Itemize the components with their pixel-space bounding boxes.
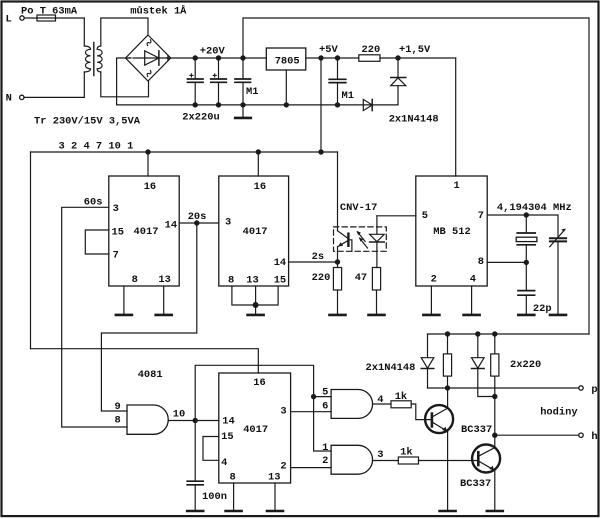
svg-text:5: 5 xyxy=(422,210,428,222)
svg-text:60s: 60s xyxy=(84,197,103,209)
wire 7805 out xyxy=(306,57,359,59)
svg-text:8: 8 xyxy=(478,256,484,268)
svg-text:4: 4 xyxy=(221,457,227,469)
terminal h xyxy=(579,433,583,437)
capacitor 100n xyxy=(194,421,196,481)
transformer Tr secondary wires xyxy=(101,18,148,46)
bridge AC tilde bottom xyxy=(146,71,152,77)
svg-text:9: 9 xyxy=(115,401,121,413)
svg-text:7: 7 xyxy=(478,210,484,222)
capacitor C2 220u xyxy=(218,58,220,79)
svg-text:2x220: 2x220 xyxy=(510,359,541,371)
transformer Tr primary wire xyxy=(83,18,85,46)
svg-text:14: 14 xyxy=(165,220,177,232)
svg-text:100n: 100n xyxy=(202,491,227,503)
svg-text:15: 15 xyxy=(274,275,286,287)
svg-text:13: 13 xyxy=(246,275,258,287)
ground 220 opto xyxy=(330,314,346,317)
svg-text:6: 6 xyxy=(322,401,328,413)
resistor 1k second xyxy=(398,457,418,464)
ground 22p xyxy=(518,314,534,317)
capacitor C1 220u xyxy=(194,58,196,79)
capacitor 22p xyxy=(525,262,527,290)
wire IC4 pin15 pin4 loop xyxy=(203,437,219,461)
IC U3 4017 first box xyxy=(109,176,179,286)
AND gate G3 4081 xyxy=(331,445,372,474)
svg-text:16: 16 xyxy=(144,181,156,193)
ground MB512 pin4 xyxy=(471,286,473,314)
svg-text:8: 8 xyxy=(228,275,234,287)
diode D1 1N4148 vertical xyxy=(397,58,399,77)
IC U6 4017 third box xyxy=(219,373,291,483)
terminal N xyxy=(20,95,24,99)
svg-text:L: L xyxy=(6,14,12,26)
ground Q2 xyxy=(487,510,503,513)
svg-text:3: 3 xyxy=(280,406,286,418)
svg-text:3: 3 xyxy=(225,217,231,229)
transformer Tr core xyxy=(93,43,95,76)
svg-text:22p: 22p xyxy=(533,303,552,315)
svg-text:2x220u: 2x220u xyxy=(182,112,219,124)
wire minus rail xyxy=(117,58,398,105)
optocoupler phototransistor xyxy=(337,152,339,231)
crystal X1 xyxy=(525,215,527,233)
wire G1 output node link xyxy=(168,420,219,422)
svg-text:2x1N4148: 2x1N4148 xyxy=(389,113,439,125)
diode D4 1N4148 xyxy=(477,334,479,357)
svg-text:220: 220 xyxy=(312,272,331,284)
wire rail 334 xyxy=(428,333,590,335)
svg-text:13: 13 xyxy=(268,472,280,484)
svg-text:BC337: BC337 xyxy=(460,478,491,490)
svg-text:1: 1 xyxy=(322,442,328,454)
terminal L xyxy=(20,16,24,20)
wire IC1 pin16 xyxy=(147,152,149,176)
wire to Q1 base xyxy=(411,404,431,420)
resistor R220 second xyxy=(494,334,496,354)
wire G2 output xyxy=(373,403,391,405)
wire IC1 pin3 60s xyxy=(62,207,127,427)
svg-text:3: 3 xyxy=(113,203,119,215)
svg-text:20s: 20s xyxy=(188,211,207,223)
svg-text:2s: 2s xyxy=(312,251,324,263)
wire G3 output xyxy=(373,460,399,462)
svg-text:4,194304 MHz: 4,194304 MHz xyxy=(497,202,572,214)
svg-text:1k: 1k xyxy=(395,391,407,403)
capacitor M1 first xyxy=(242,58,244,79)
AND gate G2 4081 xyxy=(331,390,372,419)
wire IC4 pin3 to G2 input6 xyxy=(291,411,332,413)
ground Q1 xyxy=(440,510,456,513)
wire G2 input5 xyxy=(314,396,332,398)
svg-text:8: 8 xyxy=(132,274,138,286)
ground IC4 pin8 xyxy=(233,483,235,510)
wire MB512 pin8 xyxy=(487,261,526,263)
wire IC2 pins 8 13 15 join xyxy=(232,286,278,305)
svg-text:13: 13 xyxy=(158,274,170,286)
transistor Q1 BC337 xyxy=(425,405,453,433)
svg-text:4017: 4017 xyxy=(134,226,159,238)
svg-text:+1,5V: +1,5V xyxy=(399,44,431,56)
bridge AC tilde top xyxy=(146,40,152,46)
svg-text:220: 220 xyxy=(362,44,381,56)
optocoupler LED xyxy=(376,216,378,235)
IC U5 MB512 box xyxy=(416,176,487,286)
svg-text:BC337: BC337 xyxy=(461,424,492,436)
ground MB512 pin2 xyxy=(430,286,432,314)
svg-text:4: 4 xyxy=(470,273,476,285)
IC U4 4017 second box xyxy=(219,176,289,286)
svg-text:Po T 63mA: Po T 63mA xyxy=(21,5,78,17)
ground 100n xyxy=(187,510,203,513)
svg-text:2: 2 xyxy=(322,455,328,467)
ground under M1 xyxy=(242,105,244,117)
svg-text:3: 3 xyxy=(377,449,383,461)
ground IC4 pin13 xyxy=(274,483,276,510)
resistor 1k first xyxy=(391,401,411,408)
wire node up over to gates 2 3 xyxy=(195,365,331,451)
wire IC2 pin14 2s xyxy=(289,261,338,263)
trimmer capacitor xyxy=(550,237,566,239)
optocoupler light arrows xyxy=(358,232,366,242)
svg-text:hodiny: hodiny xyxy=(540,407,578,419)
wire p line xyxy=(428,387,579,389)
wire +5V down feed xyxy=(320,58,322,152)
svg-text:Tr 230V/15V 3,5VA: Tr 230V/15V 3,5VA xyxy=(34,116,141,128)
wire 20s drop xyxy=(101,223,196,411)
diode D2 1N4148 horizontal xyxy=(363,99,372,110)
wire +5V rail mid xyxy=(31,151,338,153)
svg-text:7805: 7805 xyxy=(275,55,300,67)
bridge internal wire xyxy=(133,57,165,59)
svg-text:N: N xyxy=(6,92,12,104)
transformer Tr primary winding xyxy=(84,46,90,72)
bridge minus mark xyxy=(127,57,131,59)
wire IC4 pin2 to G3 input2 xyxy=(291,467,332,469)
wire IC1 pin15 pin7 loop xyxy=(85,230,109,254)
svg-text:p: p xyxy=(591,384,597,396)
capacitor M1 second xyxy=(337,58,339,79)
bridge internal diode xyxy=(145,51,159,65)
ground IC1 pin8 xyxy=(123,286,125,314)
wire to Q2 base xyxy=(419,460,478,462)
optocoupler CNV-17 dashed box xyxy=(334,227,387,251)
svg-text:4017: 4017 xyxy=(243,226,268,238)
svg-text:můstek 1Å: můstek 1Å xyxy=(130,4,187,17)
svg-text:+20V: +20V xyxy=(200,46,226,58)
svg-text:14: 14 xyxy=(274,257,286,269)
fuse Po xyxy=(37,15,56,21)
svg-text:h: h xyxy=(591,431,597,443)
ground IC2 xyxy=(248,314,264,317)
ground IC1 pin13 xyxy=(163,286,165,314)
svg-text:8: 8 xyxy=(115,414,121,426)
terminal p xyxy=(579,386,583,390)
svg-text:4081: 4081 xyxy=(138,369,163,381)
svg-text:4: 4 xyxy=(377,394,383,406)
svg-text:2x1N4148: 2x1N4148 xyxy=(366,362,416,374)
svg-text:CNV-17: CNV-17 xyxy=(340,202,377,214)
svg-text:+5V: +5V xyxy=(319,44,338,56)
AND gate G1 4081 xyxy=(127,405,168,434)
svg-text:14: 14 xyxy=(222,416,234,428)
svg-text:1: 1 xyxy=(454,180,460,192)
wire MB512 pin1 feed xyxy=(455,58,457,176)
resistor R220 first xyxy=(447,334,449,354)
svg-text:MB 512: MB 512 xyxy=(433,226,470,238)
wire L to transformer xyxy=(24,17,84,19)
svg-text:4017: 4017 xyxy=(243,424,268,436)
resistor 220 opto xyxy=(333,268,341,291)
svg-text:M1: M1 xyxy=(246,86,258,98)
wire MB512 pin7 xyxy=(487,215,558,237)
svg-text:5: 5 xyxy=(322,387,328,399)
svg-text:47: 47 xyxy=(355,272,367,284)
svg-text:2: 2 xyxy=(280,460,286,472)
svg-text:1k: 1k xyxy=(400,447,412,459)
ground 47 xyxy=(369,314,385,317)
svg-text:16: 16 xyxy=(254,181,266,193)
svg-text:15: 15 xyxy=(112,226,124,238)
svg-text:2: 2 xyxy=(431,273,437,285)
transistor Q2 BC337 xyxy=(472,445,500,473)
resistor 47 xyxy=(372,268,380,291)
ground trimmer xyxy=(550,314,566,317)
wire +5V to IC4 pin16 xyxy=(31,349,259,373)
svg-text:10: 10 xyxy=(173,409,185,421)
svg-text:8: 8 xyxy=(230,472,236,484)
svg-text:16: 16 xyxy=(253,377,265,389)
wire +5V left drop xyxy=(30,152,32,349)
wire top bypass xyxy=(243,18,589,334)
bridge plus mark xyxy=(166,57,170,59)
wire N to transformer xyxy=(24,96,84,98)
svg-text:7: 7 xyxy=(113,250,119,262)
optocoupler base stub xyxy=(348,240,352,252)
resistor 220 top xyxy=(359,55,380,62)
svg-text:3 2 4 7 10 1: 3 2 4 7 10 1 xyxy=(59,140,134,152)
wire MB512 pin5 xyxy=(377,215,416,217)
bridge rectifier mustek diamond xyxy=(126,35,171,81)
diode D3 1N4148 xyxy=(427,334,429,357)
wire IC2 pin16 xyxy=(257,152,259,176)
svg-text:15: 15 xyxy=(221,431,233,443)
regulator U2 7805 xyxy=(266,48,306,70)
wire IC1 pin14 to IC2 pin3 xyxy=(179,222,219,224)
wire h line xyxy=(495,434,579,436)
svg-text:M1: M1 xyxy=(342,90,354,102)
wire +20V rail xyxy=(171,57,267,59)
transformer Tr secondary winding xyxy=(97,46,102,72)
